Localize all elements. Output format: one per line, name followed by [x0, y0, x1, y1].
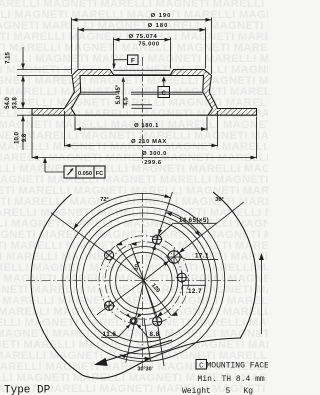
front view: flange circle O190	[70, 207, 217, 354]
note Min. TH 8.4 mm	[198, 375, 265, 384]
svg-text:4.5: 4.5	[124, 97, 130, 106]
dimension 7.15 flange thickness	[6, 47, 72, 76]
svg-text:299.6: 299.6	[144, 160, 162, 166]
section: disc right half (flange+wall+band, hatched)	[170, 70, 257, 116]
radial line to upper-left bolt (144deg)	[51, 213, 144, 281]
hole O12.7 right	[176, 272, 188, 284]
svg-text:12.7: 12.7	[188, 288, 202, 295]
break line swoosh	[82, 338, 240, 378]
section: band bottom continuous line	[76, 114, 209, 116]
front view: bore chamfer circle	[110, 247, 178, 315]
radial line to small hole (257.6deg)	[126, 281, 144, 363]
front view: vertical centerline	[142, 193, 144, 367]
angle dimension 30deg30min arc	[120, 355, 154, 373]
dimension O210 MAX	[65, 111, 218, 147]
svg-text:30°30´: 30°30´	[138, 367, 154, 373]
front view: bolt circle O120 (dash-dot)	[99, 236, 189, 326]
front view: hole circle O104 (dash-dot)	[105, 242, 183, 320]
dimension line O120 across	[116, 242, 178, 316]
front view: hat inner circle	[82, 219, 205, 342]
svg-text:Ø 180: Ø 180	[148, 23, 169, 29]
datum F (bore)	[112, 55, 138, 69]
section: centerline (disc axis)	[142, 57, 144, 163]
view direction arrow bottom-left	[94, 340, 172, 366]
svg-text:53.8: 53.8	[13, 97, 19, 109]
label 17.1	[163, 248, 218, 266]
svg-text:36°: 36°	[215, 197, 223, 203]
svg-text:FC: FC	[96, 171, 103, 177]
bolt hole O14.65 upper-left	[105, 251, 114, 260]
label chamfer 5.0x45deg / 4.5	[116, 77, 130, 109]
svg-text:75.000: 75.000	[138, 42, 159, 48]
svg-text:9.8: 9.8	[22, 133, 28, 142]
svg-text:54.0: 54.0	[5, 97, 11, 109]
note C MOUNTING FACE	[196, 360, 269, 371]
bolt hole O14.65 lower-right	[153, 317, 162, 326]
front view: center bore circle	[116, 252, 172, 308]
dimension line O104 across	[131, 242, 163, 317]
front view: hat outer circle O180	[76, 213, 211, 348]
section: disc left half (flange+wall+band, hatched)	[32, 70, 114, 116]
section: flange bottom line across cavity	[80, 75, 204, 77]
feature control frame (runout 0.050 FC)	[43, 157, 105, 178]
section: bore far-side silhouette lines	[114, 70, 171, 75]
label 11.6	[101, 324, 131, 338]
svg-text:Weight: Weight	[182, 387, 211, 395]
front view: horizontal centerline	[26, 280, 240, 282]
svg-text:17.1: 17.1	[195, 253, 209, 260]
svg-text:Ø 180.1: Ø 180.1	[134, 123, 159, 129]
dimension 10.0/9.8 band thickness	[15, 109, 33, 151]
svg-text:10.0: 10.0	[15, 132, 21, 144]
svg-text:0.050: 0.050	[78, 171, 92, 177]
section: band top far-side short lines	[132, 105, 153, 109]
dimension O180.1 band inner diameter	[75, 117, 207, 131]
svg-text:MOUNTING FACE: MOUNTING FACE	[207, 361, 269, 370]
datum C (mounting face)	[158, 76, 170, 97]
svg-text:C: C	[199, 362, 203, 370]
countersunk hole O11.6/O8.8	[126, 313, 141, 328]
radial line to lower-left bolt (216deg)	[97, 281, 144, 315]
svg-text:7.15: 7.15	[6, 52, 12, 64]
svg-text:C: C	[161, 90, 166, 97]
svg-text:F: F	[131, 57, 135, 64]
section: cavity far-side double lines	[80, 92, 203, 94]
svg-text:5.0·45°: 5.0·45°	[116, 84, 122, 104]
label 14.65(x5) bolt holes	[152, 217, 216, 250]
front view: O210 circle	[63, 200, 225, 362]
hole O17.1 with center cross	[166, 249, 183, 266]
extension line 30deg30 right	[144, 318, 151, 361]
dimension O180 flange top diameter	[78, 23, 206, 68]
svg-text:Ø 190: Ø 190	[151, 13, 172, 19]
note Weight 5 Kg	[182, 387, 253, 395]
svg-text:Min. TH 8.4 mm: Min. TH 8.4 mm	[198, 375, 265, 384]
label 8.8	[137, 324, 161, 338]
angle dimension 36deg arc	[166, 197, 224, 236]
bolt hole O14.65 lower-left	[105, 301, 114, 310]
radial line to top bolt hole (72deg)	[144, 192, 173, 281]
svg-text:Kg: Kg	[244, 387, 254, 395]
svg-text:Ø 210 MAX: Ø 210 MAX	[131, 139, 167, 145]
dimension O190 flange diameter	[72, 13, 212, 74]
dimension O75.074/75.000 center bore	[114, 34, 171, 69]
svg-text:5: 5	[226, 387, 231, 395]
svg-text:72°: 72°	[100, 197, 108, 203]
angle dimension 72deg arc	[74, 193, 171, 229]
dimension O300.0/299.6 outer diameter	[32, 117, 257, 166]
radial line through 17.1 hole (38deg)	[144, 202, 244, 280]
dimension 54.0/53.8 overall height	[5, 76, 25, 109]
label 12.7	[183, 285, 206, 295]
svg-text:Type DP: Type DP	[4, 385, 51, 395]
svg-text:Ø 300.0: Ø 300.0	[142, 151, 167, 157]
note Type DP	[4, 385, 51, 395]
bolt hole O14.65 top	[152, 235, 161, 244]
arrow right side pointing up	[259, 253, 264, 334]
radial line to lower-right bolt (288deg)	[144, 281, 159, 327]
extension line below lower-right bolt	[158, 327, 164, 366]
svg-text:Ø 75.074: Ø 75.074	[129, 34, 158, 40]
front view: disc outer edge O300 (broken arcs)	[31, 192, 256, 375]
